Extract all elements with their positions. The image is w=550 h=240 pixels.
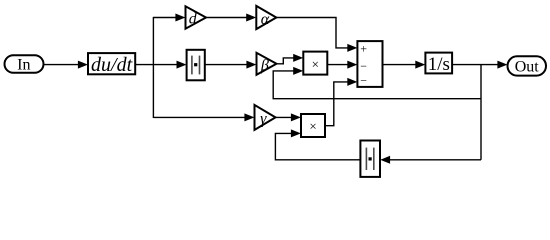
gain gamma bbox=[255, 105, 276, 130]
block abs1 bbox=[187, 50, 205, 81]
wire d to alpha bbox=[206, 14, 256, 22]
wire gamma to product2 top input bbox=[276, 113, 301, 121]
svg-text:+: + bbox=[360, 42, 367, 56]
gain alpha bbox=[256, 6, 276, 29]
port Out bbox=[508, 56, 547, 75]
wire feedback to abs2 bbox=[380, 156, 481, 164]
svg-text:In: In bbox=[17, 57, 30, 74]
svg-text:d: d bbox=[189, 11, 198, 28]
block product2 bbox=[301, 114, 325, 137]
svg-text:×: × bbox=[312, 56, 319, 71]
svg-text:1/s: 1/s bbox=[428, 54, 450, 75]
svg-text:Out: Out bbox=[515, 58, 540, 75]
wire output feedback to product1 bottom input bbox=[273, 67, 481, 99]
sum block bbox=[357, 41, 382, 88]
block abs2 bbox=[360, 141, 380, 177]
port In bbox=[5, 55, 44, 73]
wire branch vertical at junction bbox=[152, 17, 154, 118]
svg-text:×: × bbox=[309, 119, 316, 134]
gain d bbox=[186, 6, 207, 28]
wire alpha to sum plus input bbox=[276, 18, 357, 52]
svg-text:α: α bbox=[261, 11, 270, 28]
svg-text:du/dt: du/dt bbox=[91, 54, 133, 76]
svg-text:β: β bbox=[260, 57, 269, 74]
svg-text:−: − bbox=[360, 74, 367, 88]
block integrator 1/s bbox=[425, 53, 452, 75]
wire beta to product1 top input bbox=[277, 54, 304, 64]
wire branch to gain d bbox=[153, 14, 185, 22]
gain beta bbox=[257, 53, 277, 75]
svg-text:−: − bbox=[360, 59, 367, 73]
block product1 bbox=[303, 52, 327, 75]
svg-text:γ: γ bbox=[260, 111, 267, 128]
wire integrator to Out bbox=[452, 61, 507, 69]
block du/dt (derivative) bbox=[88, 53, 135, 76]
wire product1 to sum middle input bbox=[327, 61, 357, 69]
wire abs1 to beta bbox=[205, 61, 257, 69]
wire sum to integrator bbox=[383, 61, 426, 69]
wire du/dt to abs1 bbox=[135, 61, 186, 69]
wire product2 to sum bottom input bbox=[325, 78, 357, 126]
wire abs2 to product2 bottom input bbox=[275, 129, 360, 159]
wire output branch vertical bbox=[480, 65, 482, 160]
wire branch to gamma bbox=[153, 113, 254, 121]
wire In to du/dt bbox=[44, 61, 88, 69]
